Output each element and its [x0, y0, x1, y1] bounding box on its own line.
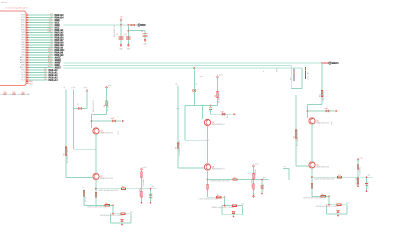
svg-text:MMBT3904LT1G: MMBT3904LT1G — [316, 167, 330, 169]
svg-text:R12: R12 — [22, 92, 25, 94]
svg-text:T1: T1 — [0, 94, 2, 96]
svg-text:p.Vcc: p.Vcc — [360, 157, 364, 159]
svg-text:1.0k/R2 SnubRes 0603 120R: 1.0k/R2 SnubRes 0603 120R — [314, 178, 335, 180]
svg-text:R10: R10 — [320, 94, 322, 97]
svg-text:C 10n 0603: C 10n 0603 — [368, 181, 370, 189]
svg-text:gnd: gnd — [130, 212, 133, 214]
svg-text:gnd: gnd — [242, 203, 245, 205]
svg-text:MMBT3904LT1G: MMBT3904LT1G — [316, 123, 330, 125]
svg-text:22: 22 — [27, 66, 29, 68]
svg-text:24: 24 — [27, 71, 29, 73]
svg-text:R11: R11 — [294, 136, 296, 139]
svg-text:R6: R6 — [122, 187, 124, 189]
svg-text:sns: sns — [284, 166, 287, 168]
svg-text:R11: R11 — [13, 92, 16, 94]
svg-text:p.Vcc: p.Vcc — [84, 87, 88, 89]
svg-text:10: 10 — [27, 36, 29, 38]
svg-text:C 10n 0603: C 10n 0603 — [152, 193, 154, 201]
svg-text:p.Vcc: p.Vcc — [219, 75, 223, 77]
svg-text:C3: C3 — [141, 31, 143, 33]
svg-text:16: 16 — [27, 51, 29, 53]
svg-text:R4: R4 — [215, 95, 217, 97]
svg-text:1.0k/R2 SnubRes 0603 120R: 1.0k/R2 SnubRes 0603 120R — [210, 181, 231, 183]
svg-text:led_k: led_k — [331, 121, 333, 125]
svg-text:11: 11 — [27, 39, 29, 41]
svg-text:R10: R10 — [4, 92, 7, 94]
svg-text:17: 17 — [27, 54, 29, 56]
svg-text:2: 2 — [27, 16, 28, 18]
svg-text:R 1k0 0603: R 1k0 0603 — [143, 178, 145, 186]
svg-text:led2: led2 — [221, 111, 224, 113]
svg-text:Rg: Rg — [106, 203, 108, 205]
svg-text:R6: R6 — [234, 177, 236, 179]
svg-text:3: 3 — [27, 19, 28, 21]
svg-text:led3: led3 — [325, 108, 328, 110]
svg-text:PD1: PD1 — [29, 83, 33, 85]
svg-text:Rg: Rg — [217, 195, 219, 197]
svg-text:R10 10k 0603: R10 10k 0603 — [323, 90, 325, 101]
svg-text:1: 1 — [27, 14, 28, 16]
svg-text:led_k: led_k — [227, 114, 229, 118]
svg-text:R 4k7 0603: R 4k7 0603 — [251, 179, 253, 187]
svg-text:ADC7: ADC7 — [48, 65, 53, 68]
svg-text:9: 9 — [27, 34, 28, 36]
svg-text:p.Vcc: p.Vcc — [143, 167, 147, 169]
svg-text:C1: C1 — [116, 34, 118, 36]
svg-text:13: 13 — [27, 44, 29, 46]
svg-text:R5: R5 — [64, 153, 66, 155]
svg-text:15: 15 — [27, 49, 29, 51]
svg-text:18: 18 — [27, 56, 29, 58]
svg-text:R12: R12 — [338, 175, 341, 177]
svg-text:25: 25 — [27, 74, 29, 76]
svg-text:R5: R5 — [176, 147, 178, 149]
svg-text:d2: d2 — [196, 83, 198, 85]
svg-text:gnd: gnd — [368, 175, 371, 177]
svg-text:21: 21 — [27, 64, 29, 66]
svg-text:14: 14 — [27, 46, 29, 48]
svg-text:R 4k7 0603: R 4k7 0603 — [139, 188, 141, 196]
svg-text:e1: e1 — [82, 187, 84, 189]
svg-text:g1: g1 — [64, 87, 66, 89]
svg-text:PC4: PC4 — [21, 80, 25, 82]
svg-text:gnd: gnd — [152, 186, 155, 188]
svg-text:VCC: VCC — [141, 23, 147, 27]
svg-text:A4: A4 — [44, 78, 46, 81]
svg-text:PC4_A4: PC4_A4 — [49, 79, 59, 82]
svg-text:C 10n 0603: C 10n 0603 — [263, 184, 265, 192]
svg-text:MMBT3904LT1G: MMBT3904LT1G — [212, 124, 226, 126]
svg-text:MMBT3904LT1G: MMBT3904LT1G — [212, 169, 226, 171]
svg-text:MMBT3904LT1G: MMBT3904LT1G — [100, 178, 114, 180]
svg-text:1 micro/atmega328_qfn32: 1 micro/atmega328_qfn32 — [5, 7, 29, 10]
svg-text:R3 10k: R3 10k — [85, 197, 87, 202]
svg-text:led1: led1 — [111, 118, 114, 120]
svg-text:8: 8 — [27, 31, 28, 33]
svg-text:R 4k7 0603: R 4k7 0603 — [356, 177, 358, 185]
svg-text:MMBT3904LT1G: MMBT3904LT1G — [100, 133, 114, 135]
svg-text:C2: C2 — [124, 34, 126, 36]
svg-text:19: 19 — [27, 59, 29, 61]
svg-text:VBUS: VBUS — [332, 61, 339, 65]
svg-text:led_k: led_k — [118, 131, 120, 135]
svg-text:23: 23 — [27, 69, 29, 71]
svg-text:gnd: gnd — [263, 177, 266, 179]
svg-text:d1: d1 — [78, 103, 80, 105]
svg-text:R 1k0 0603: R 1k0 0603 — [359, 167, 361, 175]
svg-text:p.Vcc: p.Vcc — [108, 85, 112, 87]
svg-text:R4 10k 0603: R4 10k 0603 — [108, 101, 110, 111]
svg-text:p.Vcc: p.Vcc — [255, 164, 259, 166]
svg-text:dnp: dnp — [290, 77, 292, 80]
svg-text:Rg: Rg — [322, 194, 324, 196]
svg-text:26: 26 — [27, 76, 29, 78]
svg-text:1.0k/R2 SnubRes 0603 120R: 1.0k/R2 SnubRes 0603 120R — [98, 190, 119, 192]
svg-text:R 1k0 0603: R 1k0 0603 — [255, 169, 257, 177]
svg-text:p.Vcc: p.Vcc — [72, 87, 76, 89]
svg-text:20: 20 — [27, 61, 29, 63]
svg-text:g2: g2 — [176, 83, 178, 85]
svg-text:100n 0603 C12: 100n 0603 C12 — [114, 25, 116, 37]
svg-text:7: 7 — [27, 29, 28, 31]
svg-text:R4 10k 0603: R4 10k 0603 — [219, 93, 221, 103]
svg-text:gnd: gnd — [346, 203, 349, 205]
svg-text:R4: R4 — [104, 105, 106, 107]
svg-text:12: 12 — [27, 41, 29, 43]
svg-text:led.sch: led.sch — [1, 2, 7, 4]
svg-text:swd_io 10k: swd_io 10k — [308, 72, 310, 80]
svg-text:4: 4 — [27, 21, 28, 23]
svg-text:5: 5 — [27, 24, 28, 26]
svg-text:6: 6 — [27, 26, 28, 28]
